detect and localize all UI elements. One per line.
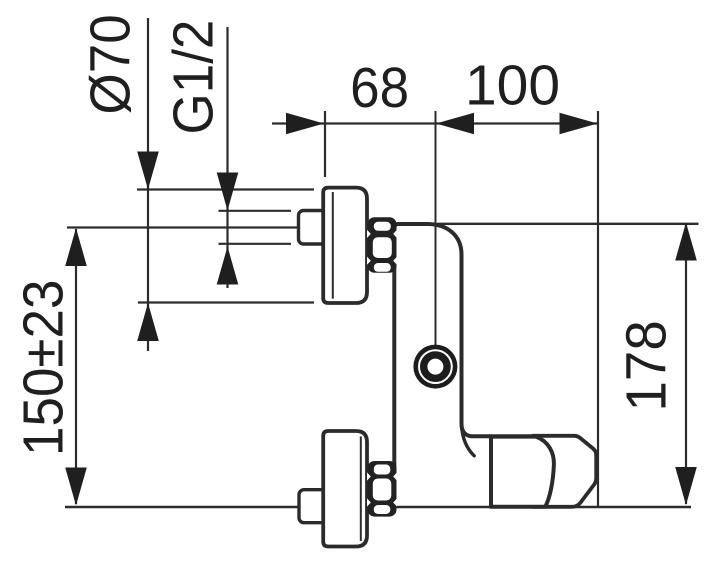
svg-text:Ø70: Ø70 — [78, 14, 142, 114]
svg-text:178: 178 — [613, 320, 677, 411]
svg-text:100: 100 — [465, 54, 560, 118]
svg-text:150±23: 150±23 — [11, 280, 75, 456]
svg-text:G1/2: G1/2 — [161, 20, 225, 135]
svg-text:68: 68 — [350, 55, 409, 119]
